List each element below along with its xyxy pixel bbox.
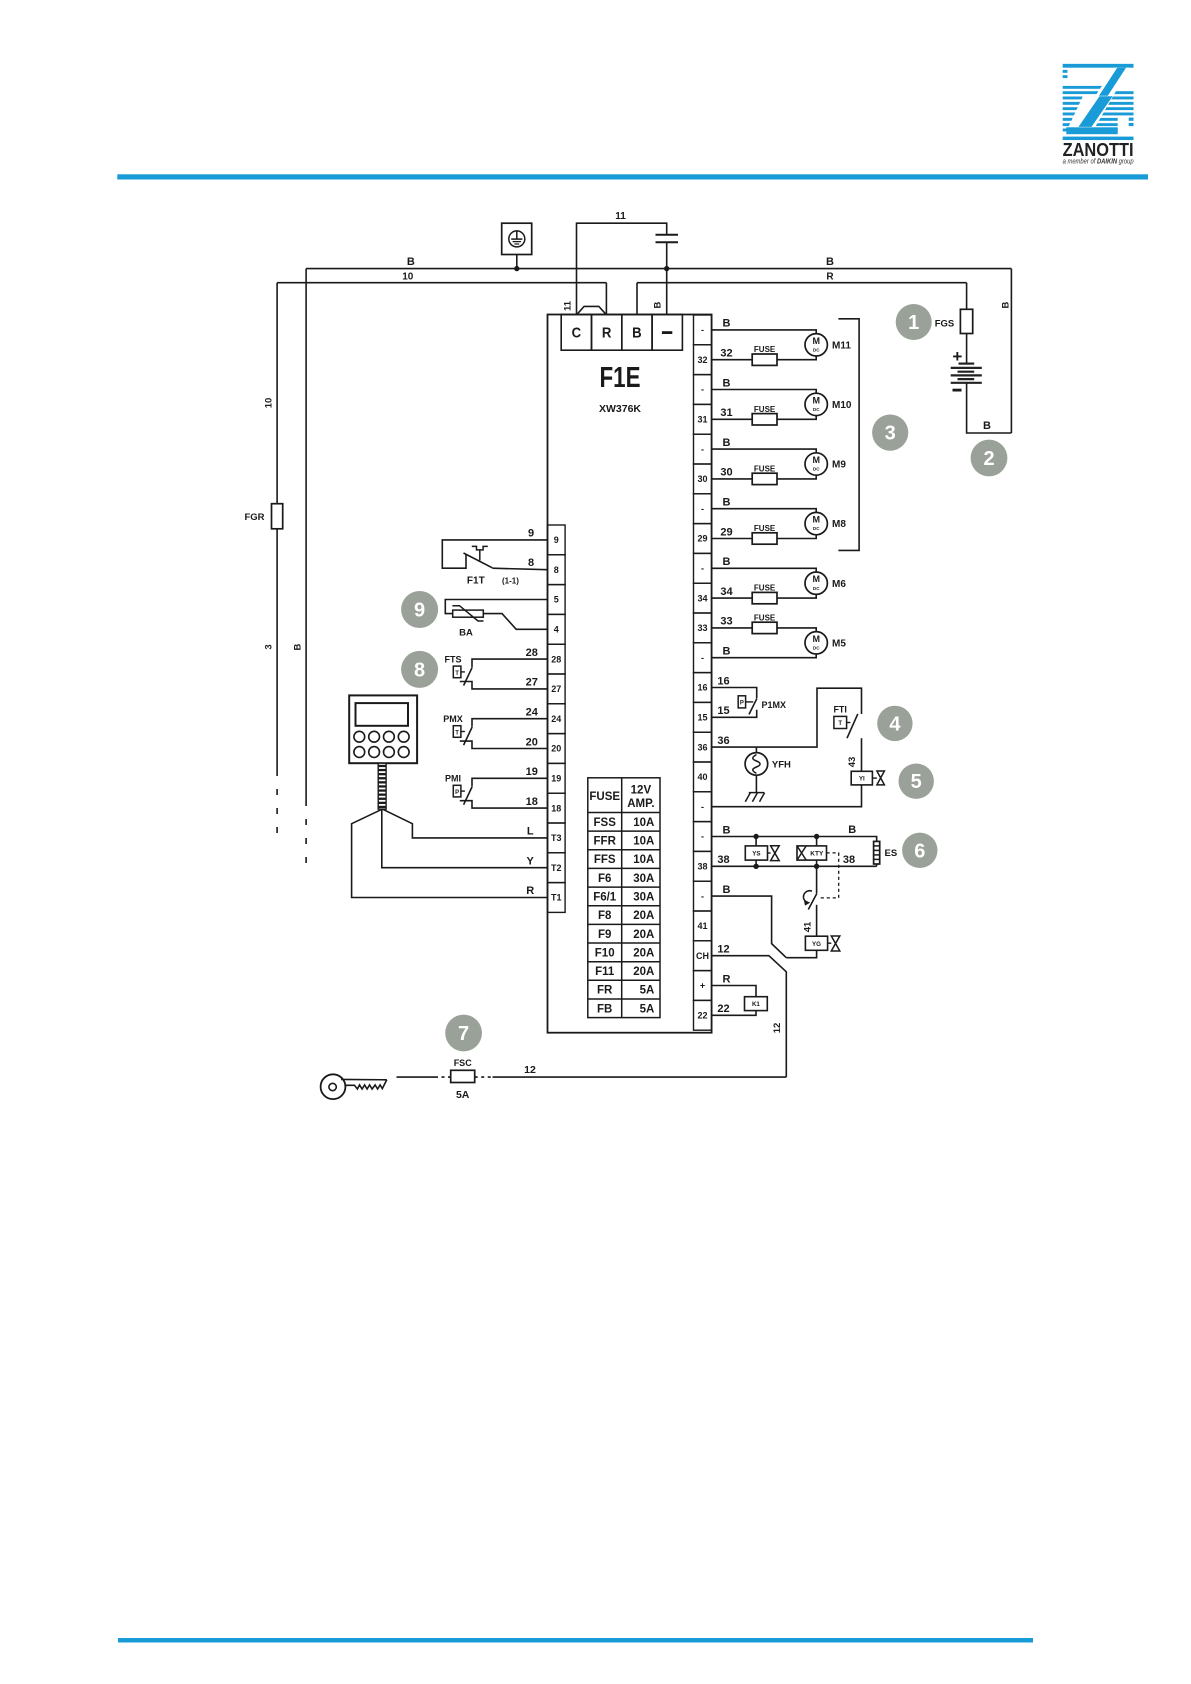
svg-text:36: 36 <box>698 742 708 752</box>
junction dot YS bottom <box>753 864 758 869</box>
wire 12 from CH <box>712 956 787 1077</box>
wire 11 top loop <box>577 223 667 314</box>
svg-text:PMX: PMX <box>443 714 463 724</box>
wire 43 <box>861 738 863 771</box>
svg-text:M5: M5 <box>832 638 846 649</box>
motor M11 <box>805 334 827 356</box>
svg-text:B: B <box>826 256 834 268</box>
solenoid valve YI <box>851 771 884 785</box>
wire 38 <box>712 865 877 867</box>
motor M8 <box>805 512 827 534</box>
svg-text:B: B <box>723 318 731 330</box>
svg-text:F1T: F1T <box>467 576 485 587</box>
svg-text:F11: F11 <box>595 966 615 978</box>
wire L keypad to T3 <box>383 809 548 838</box>
terminal cell dash2 (right) <box>694 375 712 405</box>
svg-text:12V: 12V <box>631 784 652 796</box>
numbered circle 4 <box>877 706 912 741</box>
svg-text:9: 9 <box>528 528 534 540</box>
svg-text:33: 33 <box>720 616 732 628</box>
wire 36 to thermal switch FTI <box>712 688 862 747</box>
thermistor BA <box>445 600 547 630</box>
svg-text:F6/1: F6/1 <box>593 892 617 904</box>
svg-text:31: 31 <box>698 415 708 425</box>
svg-text:-: - <box>701 504 704 514</box>
svg-text:P: P <box>455 790 459 796</box>
svg-text:8: 8 <box>554 565 559 575</box>
wire B to motor M11 <box>712 330 817 334</box>
resistor ES <box>874 841 880 866</box>
thermal switch FTI <box>834 714 858 738</box>
keypad control panel <box>349 695 417 763</box>
svg-text:-: - <box>701 891 704 901</box>
svg-text:5: 5 <box>911 771 922 793</box>
svg-text:+: + <box>700 981 705 991</box>
bracket grouping motors <box>838 319 859 551</box>
wire B to motor M5 <box>712 654 817 658</box>
wire 30 fuse to motor M9 <box>777 475 816 479</box>
svg-text:38: 38 <box>717 854 729 866</box>
terminal cell dash11 (right) <box>694 643 712 673</box>
svg-text:B: B <box>723 884 731 896</box>
battery G1 <box>951 347 982 392</box>
solenoid valve YS <box>745 837 779 867</box>
svg-text:32: 32 <box>720 348 732 360</box>
svg-text:M: M <box>812 455 820 465</box>
wire 10 drop to terminal R <box>605 283 607 315</box>
svg-text:30: 30 <box>698 474 708 484</box>
switch PMI <box>453 778 547 808</box>
controller U1 F1E outline <box>548 315 712 1033</box>
svg-text:-: - <box>701 653 704 663</box>
svg-text:10: 10 <box>402 272 414 283</box>
svg-text:12: 12 <box>524 1064 536 1076</box>
terminal cell 30 (right) <box>694 464 712 494</box>
wire 10/3 vertical with fuse FGR <box>276 283 278 770</box>
svg-text:38: 38 <box>843 854 855 866</box>
svg-text:-: - <box>701 444 704 454</box>
terminal cell 22 (right) <box>694 1000 712 1030</box>
svg-text:36: 36 <box>717 735 729 747</box>
svg-text:DC: DC <box>813 347 820 352</box>
terminal cell 41 (right) <box>694 911 712 941</box>
numbered circle 9 <box>401 591 438 628</box>
svg-text:P1MX: P1MX <box>762 700 787 710</box>
fuse for motor M11 <box>712 359 753 361</box>
terminal cell 16 (right) <box>694 673 712 703</box>
svg-text:28: 28 <box>526 647 538 659</box>
svg-text:27: 27 <box>551 684 561 694</box>
svg-text:(1-1): (1-1) <box>502 577 519 586</box>
capacitor C11 <box>656 234 679 236</box>
terminal cell 32 (right) <box>694 345 712 375</box>
svg-text:FSS: FSS <box>594 817 617 829</box>
terminal cell dash4 (right) <box>694 434 712 464</box>
svg-text:20A: 20A <box>633 966 654 978</box>
svg-text:FR: FR <box>597 985 613 997</box>
svg-text:31: 31 <box>720 407 732 419</box>
svg-text:40: 40 <box>698 772 708 782</box>
svg-text:B: B <box>723 437 731 449</box>
svg-text:F9: F9 <box>598 929 611 941</box>
terminal box B <box>622 315 652 351</box>
numbered circle 6 <box>902 833 937 868</box>
terminal cell 36 (right) <box>694 732 712 762</box>
terminal cell 15 (right) <box>694 702 712 732</box>
svg-text:22: 22 <box>717 1003 729 1015</box>
svg-text:11: 11 <box>563 300 574 311</box>
wire B to motor M9 <box>712 449 817 453</box>
svg-text:30A: 30A <box>633 892 654 904</box>
svg-text:-: - <box>701 802 704 812</box>
svg-text:B: B <box>723 377 731 389</box>
terminal cell T1 (left) <box>548 883 566 913</box>
terminal cell 27 (left) <box>548 674 566 704</box>
svg-text:DC: DC <box>813 645 820 650</box>
motor M6 <box>805 572 827 594</box>
terminal cell 9 (left) <box>548 525 566 555</box>
svg-text:11: 11 <box>615 211 626 222</box>
wire B to motor M10 <box>712 390 817 394</box>
terminal cell T3 (left) <box>548 823 566 853</box>
svg-text:FUSE: FUSE <box>589 791 620 803</box>
wire R horizontal (right) <box>637 282 967 284</box>
svg-text:38: 38 <box>698 862 708 872</box>
terminal cell 19 (left) <box>548 763 566 793</box>
svg-text:7: 7 <box>458 1023 469 1045</box>
fuse for motor M8 <box>712 538 753 540</box>
svg-text:5A: 5A <box>640 1003 655 1015</box>
junction dot capacitor/B <box>664 266 669 271</box>
svg-text:20: 20 <box>526 736 538 748</box>
svg-text:6: 6 <box>914 840 925 862</box>
svg-text:FGR: FGR <box>244 512 264 523</box>
motor M10 <box>805 393 827 415</box>
svg-text:FUSE: FUSE <box>754 345 776 354</box>
svg-text:T2: T2 <box>551 863 562 873</box>
svg-text:43: 43 <box>847 757 858 768</box>
valve switch with rotation arrow <box>803 866 816 936</box>
svg-text:-: - <box>701 832 704 842</box>
terminal cell 40 (right) <box>694 762 712 792</box>
svg-text:F10: F10 <box>595 947 615 959</box>
terminal cell 29 (right) <box>694 524 712 554</box>
svg-text:33: 33 <box>698 623 708 633</box>
wire 34 fuse to motor M6 <box>777 594 816 598</box>
wire B top horizontal <box>306 268 1011 270</box>
svg-text:16: 16 <box>698 683 708 693</box>
terminal cell dash19 (right) <box>694 881 712 911</box>
bottom cyan rule <box>118 1638 1033 1643</box>
svg-text:29: 29 <box>698 534 708 544</box>
svg-text:2: 2 <box>983 448 994 470</box>
svg-text:R: R <box>826 272 834 283</box>
wire B drop to terminal minus <box>666 269 668 315</box>
terminal box R <box>592 315 622 351</box>
motor M5 <box>805 632 827 654</box>
svg-text:YS: YS <box>752 851 760 858</box>
svg-text:3: 3 <box>885 423 896 445</box>
svg-text:YG: YG <box>812 941 821 948</box>
svg-text:B: B <box>653 301 664 308</box>
svg-text:24: 24 <box>526 707 539 719</box>
svg-text:FSC: FSC <box>454 1058 473 1068</box>
svg-text:AMP.: AMP. <box>627 798 654 810</box>
svg-text:YI: YI <box>859 776 865 783</box>
terminal cell dash6 (right) <box>694 494 712 524</box>
svg-text:41: 41 <box>698 921 708 931</box>
terminal cell T2 (left) <box>548 853 566 883</box>
terminal cell 31 (right) <box>694 404 712 434</box>
numbered circle 2 <box>971 440 1008 477</box>
svg-text:FTI: FTI <box>833 705 847 715</box>
svg-text:F1E: F1E <box>600 362 641 394</box>
svg-text:5: 5 <box>554 595 559 605</box>
svg-text:M: M <box>812 574 820 584</box>
wire 31 fuse to motor M10 <box>777 416 816 420</box>
svg-text:-: - <box>701 564 704 574</box>
wire B right vertical <box>1010 269 1012 433</box>
svg-text:YFH: YFH <box>772 760 791 771</box>
wire R drop to terminal B <box>636 283 638 315</box>
ignition key symbol <box>321 1074 387 1099</box>
svg-text:5A: 5A <box>640 985 655 997</box>
svg-text:ES: ES <box>885 848 898 859</box>
svg-text:12: 12 <box>717 944 729 956</box>
svg-text:10A: 10A <box>633 836 654 848</box>
svg-text:32: 32 <box>698 355 708 365</box>
svg-text:XW376K: XW376K <box>599 403 641 415</box>
svg-text:C: C <box>572 325 582 342</box>
svg-text:9: 9 <box>414 600 425 622</box>
wire B to motor M8 <box>712 509 817 513</box>
terminal box minus <box>652 315 682 351</box>
wire B to motor M6 <box>712 568 817 572</box>
svg-text:DC: DC <box>813 526 820 531</box>
terminal cell 8 (left) <box>548 555 566 585</box>
keypad cable <box>378 763 386 809</box>
svg-text:T: T <box>455 730 459 736</box>
svg-text:B: B <box>983 420 991 432</box>
svg-text:DC: DC <box>813 467 820 472</box>
wire B left vertical <box>305 269 307 800</box>
terminal box C <box>561 315 591 351</box>
svg-text:L: L <box>527 826 534 838</box>
svg-text:1: 1 <box>908 312 919 334</box>
wire 29 fuse to motor M8 <box>777 535 816 539</box>
svg-text:20A: 20A <box>633 929 654 941</box>
svg-text:27: 27 <box>526 677 538 689</box>
svg-text:B: B <box>848 824 856 836</box>
terminal cell 4 (left) <box>548 614 566 644</box>
wire key to fuse FSC <box>397 1076 436 1078</box>
terminal cell dash16 (right) <box>694 792 712 822</box>
svg-text:-: - <box>701 385 704 395</box>
svg-text:10A: 10A <box>633 854 654 866</box>
svg-text:B: B <box>293 643 304 650</box>
terminal cell dash0 (right) <box>694 315 712 345</box>
svg-text:34: 34 <box>720 586 733 598</box>
dashed pilot line KTY to valve switch <box>818 853 839 898</box>
valve KTY <box>797 837 827 867</box>
svg-text:DC: DC <box>813 407 820 412</box>
svg-text:BA: BA <box>459 628 473 639</box>
svg-text:B: B <box>1000 301 1011 308</box>
wire 33 fuse to motor M5 <box>777 628 816 632</box>
svg-text:10A: 10A <box>633 817 654 829</box>
wire B to YG (diagonal jog) <box>712 896 787 958</box>
terminal cell CH (right) <box>694 941 712 971</box>
svg-text:T: T <box>455 671 459 677</box>
svg-text:T3: T3 <box>551 833 562 843</box>
pressure switch P1MX <box>712 688 757 718</box>
svg-text:16: 16 <box>717 675 729 687</box>
svg-text:4: 4 <box>889 713 901 735</box>
wire R to fuse FGS <box>966 283 968 310</box>
numbered circle 8 <box>401 651 438 688</box>
relay K1 <box>712 986 768 1016</box>
numbered circle 3 <box>872 415 908 451</box>
terminal cell 5 (left) <box>548 585 566 615</box>
numbered circle 7 <box>445 1015 482 1052</box>
svg-text:B: B <box>723 497 731 509</box>
svg-text:B: B <box>723 824 731 836</box>
svg-text:FFR: FFR <box>594 836 617 848</box>
terminal cell 38 (right) <box>694 851 712 881</box>
svg-text:M: M <box>812 395 820 405</box>
svg-text:8: 8 <box>528 557 534 569</box>
svg-text:R: R <box>723 973 731 985</box>
svg-text:M: M <box>812 515 820 525</box>
svg-text:PMI: PMI <box>445 774 461 784</box>
svg-text:F6: F6 <box>598 873 611 885</box>
fuse FSC <box>451 1070 475 1082</box>
junction dot earth/B <box>514 266 519 271</box>
svg-text:10: 10 <box>264 398 275 409</box>
wire 10 horizontal (left) <box>277 282 606 284</box>
fuse for motor M5 <box>712 627 753 629</box>
junction dot KTY bottom <box>814 864 819 869</box>
svg-text:FUSE: FUSE <box>754 464 776 473</box>
svg-text:T1: T1 <box>551 893 562 903</box>
wire YI to terminal dash <box>712 785 862 807</box>
svg-text:30A: 30A <box>633 873 654 885</box>
terminal cell 24 (left) <box>548 704 566 734</box>
svg-text:9: 9 <box>554 535 559 545</box>
fuse FGS <box>960 309 972 333</box>
svg-text:22: 22 <box>698 1011 708 1021</box>
svg-text:41: 41 <box>803 921 814 932</box>
junction dot YS top <box>753 834 758 839</box>
svg-text:B: B <box>632 325 642 342</box>
terminal cell dash17 (right) <box>694 822 712 852</box>
switch PMX <box>453 719 547 749</box>
wire B to ES <box>712 837 877 842</box>
svg-text:M: M <box>812 634 820 644</box>
terminal cell 34 (right) <box>694 583 712 613</box>
fuse FGR <box>272 504 283 529</box>
numbered circle 1 <box>896 304 932 340</box>
svg-text:34: 34 <box>698 593 708 603</box>
svg-text:19: 19 <box>526 766 538 778</box>
svg-text:5A: 5A <box>456 1089 470 1101</box>
terminal cell 18 (left) <box>548 793 566 823</box>
fuse for motor M6 <box>712 597 753 599</box>
svg-text:R: R <box>526 885 534 897</box>
fuse for motor M10 <box>712 418 753 420</box>
svg-text:R: R <box>602 325 612 342</box>
numbered circle 5 <box>899 764 934 799</box>
svg-text:FUSE: FUSE <box>754 584 776 593</box>
svg-text:20A: 20A <box>633 947 654 959</box>
top cyan rule <box>117 174 1148 179</box>
fuse table <box>588 778 660 1018</box>
Zanotti logo <box>1061 64 1135 166</box>
terminal cell dash8 (right) <box>694 553 712 583</box>
svg-text:B: B <box>723 646 731 658</box>
switch FTS <box>453 659 547 689</box>
svg-text:F8: F8 <box>598 910 612 922</box>
protective earth symbol <box>502 223 532 268</box>
svg-text:29: 29 <box>720 526 732 538</box>
svg-text:CH: CH <box>696 951 709 961</box>
svg-text:FUSE: FUSE <box>754 613 776 622</box>
svg-text:18: 18 <box>551 803 561 813</box>
wire YG bottom <box>786 950 816 957</box>
wire fuse to 12 line <box>475 1076 493 1078</box>
svg-text:19: 19 <box>551 774 561 784</box>
svg-text:B: B <box>407 256 415 268</box>
svg-text:15: 15 <box>717 705 729 717</box>
thermal switch F1T <box>442 540 547 570</box>
svg-text:P: P <box>740 700 744 706</box>
svg-text:FTS: FTS <box>445 654 462 664</box>
svg-text:FGS: FGS <box>935 319 955 330</box>
svg-text:4: 4 <box>554 625 559 635</box>
svg-text:3: 3 <box>264 644 275 649</box>
wire R keypad to T1 <box>352 809 548 897</box>
svg-text:24: 24 <box>551 714 561 724</box>
terminal cell 33 (right) <box>694 613 712 643</box>
svg-text:M9: M9 <box>832 460 846 471</box>
svg-text:20: 20 <box>551 744 561 754</box>
svg-text:M: M <box>812 336 820 346</box>
svg-text:-: - <box>701 325 704 335</box>
svg-text:DC: DC <box>813 586 820 591</box>
terminal cell + (right) <box>694 971 712 1001</box>
svg-text:FUSE: FUSE <box>754 524 776 533</box>
svg-text:M11: M11 <box>832 340 851 351</box>
terminal cell 20 (left) <box>548 734 566 764</box>
wire 32 fuse to motor M11 <box>777 356 816 360</box>
terminal cell 28 (left) <box>548 644 566 674</box>
svg-text:M10: M10 <box>832 400 852 411</box>
svg-text:FUSE: FUSE <box>754 405 776 414</box>
svg-text:30: 30 <box>720 467 732 479</box>
svg-text:M8: M8 <box>832 519 846 530</box>
wire battery minus to B <box>967 383 1012 433</box>
svg-text:12: 12 <box>772 1023 783 1034</box>
svg-text:8: 8 <box>414 659 425 681</box>
wire fuse to battery <box>966 334 968 364</box>
connector trapezoid at terminals C-R <box>578 306 606 313</box>
svg-text:Y: Y <box>527 855 535 867</box>
chassis ground below YFH <box>745 775 764 802</box>
wire Y keypad to T2 <box>382 809 548 868</box>
fuse for motor M9 <box>712 478 753 480</box>
svg-text:18: 18 <box>526 796 538 808</box>
svg-text:FB: FB <box>597 1003 612 1015</box>
